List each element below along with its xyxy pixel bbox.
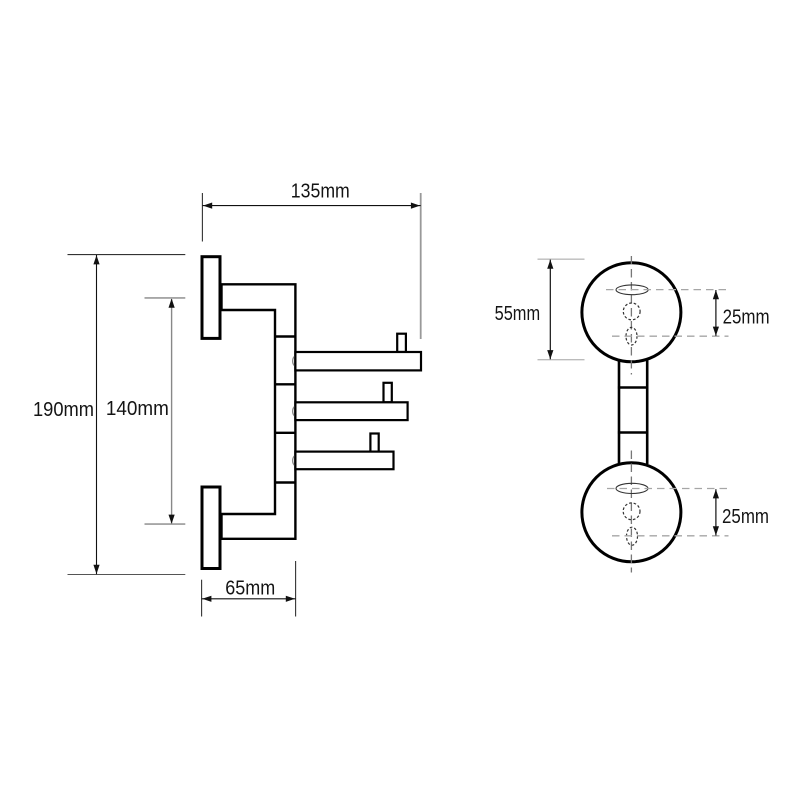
svg-text:135mm: 135mm (291, 181, 350, 203)
svg-text:190mm: 190mm (33, 399, 94, 421)
svg-text:140mm: 140mm (106, 398, 169, 420)
svg-text:65mm: 65mm (225, 578, 275, 600)
svg-text:25mm: 25mm (722, 506, 769, 528)
svg-text:25mm: 25mm (723, 306, 770, 328)
svg-text:55mm: 55mm (495, 303, 540, 325)
